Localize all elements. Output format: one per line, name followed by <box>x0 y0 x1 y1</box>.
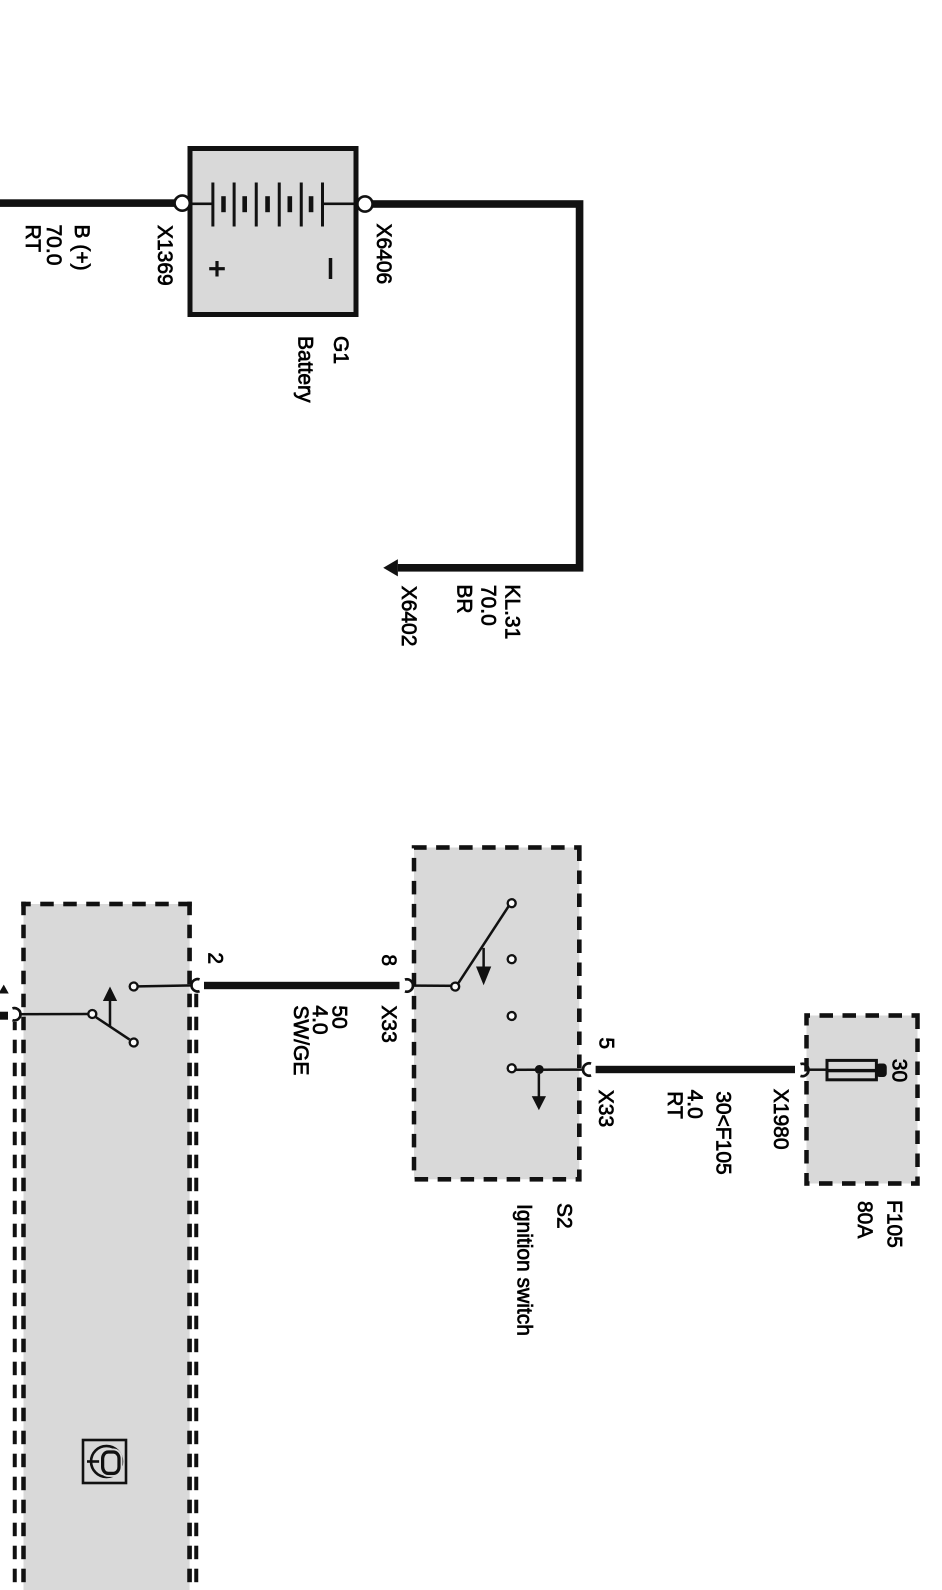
svg-text:F105: F105 <box>883 1200 906 1248</box>
svg-text:X6402: X6402 <box>397 586 420 647</box>
svg-text:RT: RT <box>21 225 44 253</box>
svg-text:X33: X33 <box>377 1005 400 1042</box>
svg-text:8: 8 <box>377 954 400 966</box>
svg-text:G1: G1 <box>329 336 352 364</box>
svg-text:RT: RT <box>663 1091 686 1119</box>
svg-text:BR: BR <box>453 584 476 613</box>
svg-text:30: 30 <box>888 1059 911 1082</box>
svg-text:KL.31: KL.31 <box>500 584 523 639</box>
svg-text:S2: S2 <box>552 1203 575 1229</box>
svg-text:70.0: 70.0 <box>477 585 500 626</box>
svg-text:70.0: 70.0 <box>42 225 65 266</box>
svg-text:4.0: 4.0 <box>683 1090 706 1119</box>
svg-text:Battery: Battery <box>294 336 317 403</box>
svg-text:X1980: X1980 <box>769 1089 792 1150</box>
svg-text:5: 5 <box>594 1037 617 1049</box>
svg-text:X33: X33 <box>594 1090 617 1127</box>
svg-text:30<F105: 30<F105 <box>712 1091 735 1175</box>
svg-text:X6406: X6406 <box>372 224 395 285</box>
svg-text:B (+): B (+) <box>70 225 93 271</box>
svg-text:X1369: X1369 <box>153 225 176 286</box>
svg-text:SW/GE: SW/GE <box>289 1005 312 1075</box>
svg-text:2: 2 <box>204 952 227 964</box>
svg-text:80A: 80A <box>853 1201 876 1238</box>
svg-text:Ignition switch: Ignition switch <box>513 1204 536 1336</box>
